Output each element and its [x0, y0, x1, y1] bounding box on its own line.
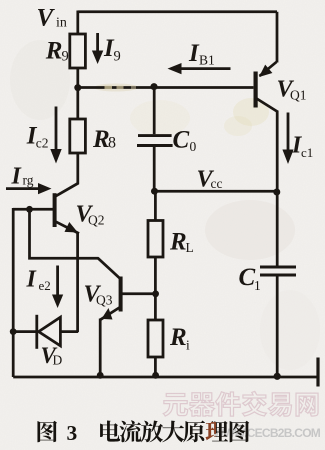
svg-text:9: 9: [114, 49, 121, 65]
svg-text:R: R: [169, 229, 187, 256]
svg-text:L: L: [186, 240, 194, 255]
svg-text:Q3: Q3: [96, 293, 113, 308]
svg-text:R: R: [169, 324, 187, 351]
svg-text:cc: cc: [211, 176, 223, 191]
svg-text:B1: B1: [199, 53, 215, 68]
svg-text:I: I: [11, 164, 23, 190]
svg-text:8: 8: [108, 135, 116, 152]
svg-text:in: in: [56, 15, 67, 30]
svg-text:c1: c1: [301, 145, 313, 160]
svg-text:i: i: [186, 338, 190, 353]
svg-text:C: C: [239, 264, 256, 291]
svg-text:Q2: Q2: [88, 213, 105, 228]
svg-text:I: I: [26, 267, 38, 293]
svg-text:R: R: [45, 38, 63, 65]
svg-text:D: D: [53, 353, 63, 368]
svg-text:0: 0: [190, 139, 197, 154]
svg-text:rg: rg: [23, 173, 34, 188]
svg-text:3: 3: [67, 421, 78, 445]
svg-text:Q1: Q1: [290, 88, 307, 103]
svg-text:V: V: [37, 5, 56, 32]
svg-text:WWW.CECB2B.COM: WWW.CECB2B.COM: [213, 426, 321, 440]
svg-text:c2: c2: [36, 136, 49, 151]
svg-text:1: 1: [254, 278, 261, 293]
svg-text:C: C: [173, 127, 190, 154]
svg-text:e2: e2: [39, 278, 51, 293]
svg-text:9: 9: [62, 49, 69, 65]
